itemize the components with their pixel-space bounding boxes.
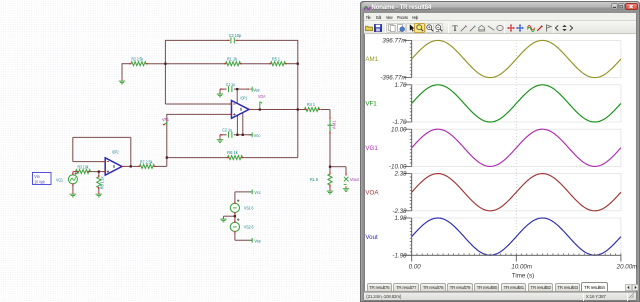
svg-text:0.00: 0.00 bbox=[409, 264, 422, 271]
wire C1 row bbox=[220, 88, 227, 90]
power flag Vcc (VS1) bbox=[251, 190, 253, 195]
svg-text:IOP2: IOP2 bbox=[112, 149, 119, 154]
ground C1 bbox=[219, 92, 221, 94]
svg-text:-1.98: -1.98 bbox=[392, 252, 407, 259]
wire VG1 stems bbox=[72, 172, 74, 175]
resistor R7 2.5k bbox=[140, 164, 155, 168]
node junction R8 tee bbox=[98, 170, 100, 172]
wire IOP2 feedback loop bbox=[130, 137, 132, 166]
wire IOP1 output row y=109.5 bbox=[250, 109, 306, 111]
wire VS chain bbox=[235, 191, 252, 193]
svg-text:AM1: AM1 bbox=[332, 120, 337, 129]
VF1 flag bbox=[166, 122, 168, 126]
ground RL bbox=[329, 189, 331, 191]
svg-text:Vee: Vee bbox=[253, 87, 260, 92]
wire IOP1 supply drops bbox=[236, 89, 238, 103]
VOA flag bbox=[259, 102, 261, 109]
status bar bbox=[364, 292, 636, 300]
wire main mid rail y=63.7 bbox=[122, 63, 131, 65]
svg-text:R4 1: R4 1 bbox=[307, 102, 315, 107]
source VG1 bbox=[68, 175, 77, 184]
node junction rail A / mid rail bbox=[164, 63, 166, 65]
svg-text:VOA: VOA bbox=[365, 189, 379, 196]
svg-text:Vout: Vout bbox=[365, 234, 378, 241]
wire VS ground stub bbox=[224, 215, 235, 217]
wire RL drop bbox=[329, 167, 331, 173]
wire R3 row y=171.6 bbox=[73, 171, 77, 173]
ground C2 bbox=[219, 137, 221, 139]
capacitor C2 1u bbox=[228, 132, 230, 138]
op-amp IOP2 bbox=[105, 158, 122, 175]
wire rail B (node to IOP1 +in) bbox=[167, 113, 231, 115]
svg-text:10 Vpk: 10 Vpk bbox=[34, 179, 45, 184]
svg-text:2.38: 2.38 bbox=[393, 171, 407, 178]
label box Vin 10 Vpk bbox=[33, 173, 52, 185]
ground VG1 bbox=[72, 192, 74, 194]
node junction VS midpoint bbox=[234, 215, 236, 217]
ground Vout pin bbox=[345, 186, 347, 188]
svg-text:C1 1u: C1 1u bbox=[226, 82, 235, 87]
wire R6 row y=157.6 bbox=[167, 157, 227, 159]
svg-text:R1 1k: R1 1k bbox=[227, 56, 238, 61]
node junction C2 supply a bbox=[236, 134, 238, 136]
plot area bbox=[360, 30, 640, 290]
svg-text:C2 1u: C2 1u bbox=[222, 128, 232, 133]
wire R2 ground drop bbox=[121, 63, 123, 78]
svg-text:IOP1: IOP1 bbox=[241, 96, 248, 101]
resistor R2 2.5k bbox=[131, 62, 146, 66]
power flag Vcc (C2) bbox=[251, 132, 253, 137]
svg-text:Vout: Vout bbox=[350, 177, 360, 182]
source VS2 6 bbox=[230, 222, 239, 231]
node junction C2 supply b bbox=[242, 134, 244, 136]
voltage pin Vout bbox=[344, 177, 349, 182]
svg-text:R3 10k: R3 10k bbox=[78, 165, 90, 170]
wire rail A (left vertical to IOP1 -in) bbox=[164, 40, 166, 104]
svg-text:R2 2.5k: R2 2.5k bbox=[132, 56, 144, 61]
svg-text:VG1: VG1 bbox=[365, 145, 378, 152]
svg-text:VOA: VOA bbox=[258, 94, 266, 99]
svg-text:VG1: VG1 bbox=[56, 177, 63, 182]
svg-text:-396.77m: -396.77m bbox=[380, 75, 406, 82]
wire R8 drop bbox=[98, 172, 100, 176]
power flag Vee (VS2) bbox=[251, 238, 253, 243]
svg-text:10.00: 10.00 bbox=[391, 126, 407, 133]
ground VS midpoint bbox=[223, 217, 225, 219]
title bar bbox=[362, 2, 640, 14]
svg-text:Time (s): Time (s) bbox=[512, 273, 534, 280]
svg-text:-1.70: -1.70 bbox=[392, 119, 407, 126]
node junction right rail / mid rail bbox=[297, 63, 299, 65]
op-amp IOP1 bbox=[232, 101, 250, 119]
svg-text:Vcc: Vcc bbox=[254, 133, 261, 138]
power flag Vee (C1) bbox=[251, 87, 253, 92]
toolbar bbox=[364, 21, 636, 34]
svg-text:Vee: Vee bbox=[254, 238, 261, 243]
ground R8 bbox=[98, 192, 100, 194]
resistor R3 10k bbox=[76, 170, 91, 174]
ground R2 bbox=[121, 79, 123, 81]
svg-text:20.00m: 20.00m bbox=[616, 264, 638, 271]
wire C3 feedback top bbox=[165, 39, 229, 41]
node junction R6 tee bbox=[166, 156, 168, 158]
svg-text:R8 1.1k: R8 1.1k bbox=[100, 176, 105, 189]
tab bar bbox=[364, 291, 636, 292]
node junction AM1/RL/Vout bbox=[329, 166, 331, 168]
svg-text:RL 5: RL 5 bbox=[310, 177, 318, 182]
svg-text:Vcc: Vcc bbox=[254, 190, 261, 195]
wire R7 row y=166.4 bbox=[124, 165, 139, 167]
node junction C1 supply bbox=[236, 88, 238, 90]
menu bar bbox=[364, 13, 636, 21]
svg-text:1.98: 1.98 bbox=[394, 215, 407, 222]
svg-text:C3 10p: C3 10p bbox=[229, 33, 242, 38]
svg-text:-2.38: -2.38 bbox=[392, 208, 407, 215]
wire C2 row bbox=[220, 134, 227, 136]
capacitor C1 1u bbox=[228, 86, 230, 92]
resistor R5 1 bbox=[271, 62, 286, 66]
node junction right rail / output row bbox=[297, 108, 299, 110]
wire AM1 branch down bbox=[329, 110, 331, 118]
ammeter AM1 bbox=[329, 119, 331, 131]
node junction VOA tap bbox=[259, 108, 261, 110]
resistor R4 1 bbox=[305, 108, 320, 112]
resistor R6 1k bbox=[228, 156, 243, 160]
svg-text:VS2 6: VS2 6 bbox=[244, 225, 254, 230]
svg-text:10.00m: 10.00m bbox=[511, 264, 532, 271]
svg-text:R6 1k: R6 1k bbox=[227, 150, 238, 155]
svg-text:VS1 6: VS1 6 bbox=[244, 205, 254, 210]
wire to Vout pin bbox=[330, 166, 346, 168]
svg-text:VF1: VF1 bbox=[162, 117, 169, 122]
capacitor C3 10p bbox=[230, 37, 232, 43]
svg-text:VF1: VF1 bbox=[365, 101, 377, 108]
svg-text:R7 2.5k: R7 2.5k bbox=[140, 159, 153, 164]
wire right rail x=297.8 bbox=[297, 40, 299, 158]
source VS1 6 bbox=[230, 203, 239, 212]
svg-text:AM1: AM1 bbox=[365, 56, 378, 63]
resistor RL 5 bbox=[328, 174, 332, 185]
svg-text:R5 1: R5 1 bbox=[272, 56, 280, 61]
svg-text:1.70: 1.70 bbox=[394, 82, 407, 89]
svg-text:396.77m: 396.77m bbox=[382, 38, 406, 45]
resistor R1 1k bbox=[226, 62, 241, 66]
node junction IOP2 feedback bbox=[130, 165, 132, 167]
waveform viewer window bbox=[360, 1, 640, 302]
resistor R8 1.1k bbox=[97, 177, 101, 188]
svg-text:-10.00: -10.00 bbox=[389, 164, 407, 171]
